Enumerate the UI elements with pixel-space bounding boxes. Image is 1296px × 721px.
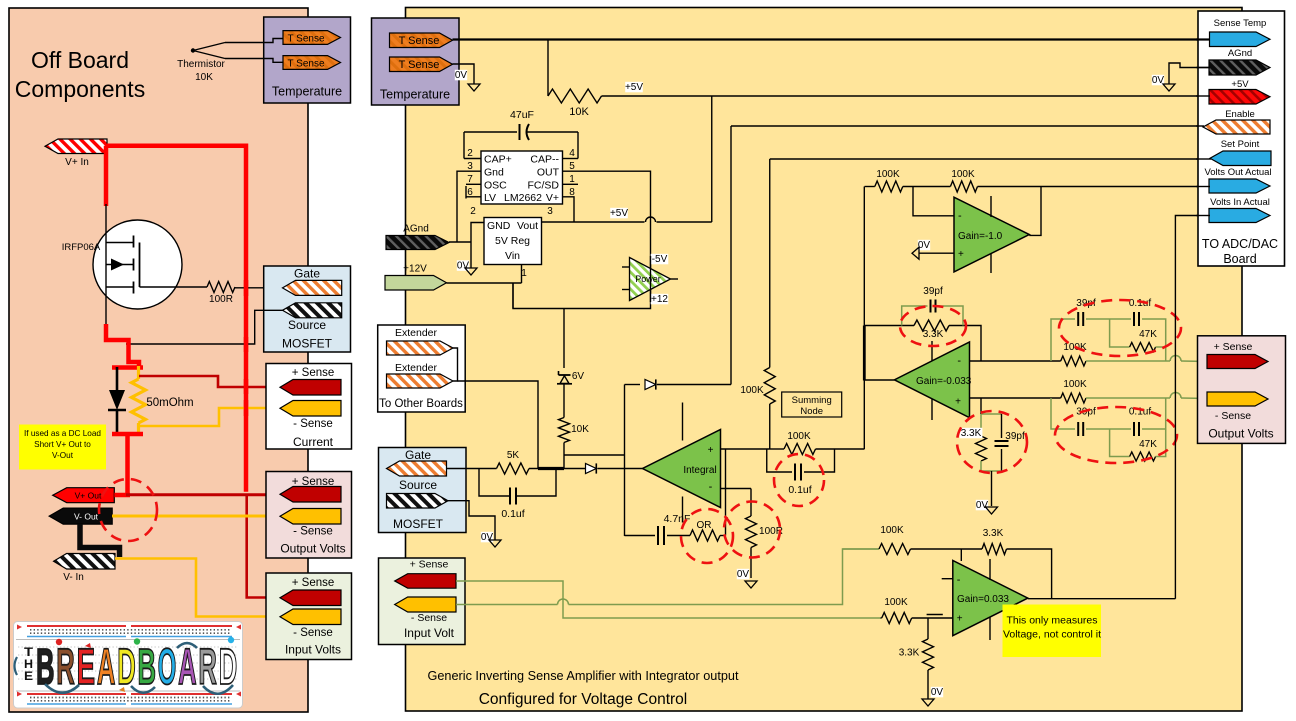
svg-text:Voltage, not control it: Voltage, not control it <box>1003 629 1101 641</box>
hop +5V over -5V wire <box>646 217 656 222</box>
wire plus to shunt RC <box>980 398 982 414</box>
svg-text:TO ADC/DAC: TO ADC/DAC <box>1202 237 1278 251</box>
svg-text:10K: 10K <box>571 424 589 435</box>
connector Extender 1 <box>387 341 454 355</box>
svg-text:V- In: V- In <box>63 572 84 583</box>
svg-text:0.1uf: 0.1uf <box>501 508 524 520</box>
connector + Sense (Input Volts left) <box>280 590 341 606</box>
wire 10K to node <box>563 443 565 469</box>
svg-text:0V: 0V <box>976 500 989 511</box>
ground 0V gain-1 +input <box>918 240 930 251</box>
svg-text:Volts Out Actual: Volts Out Actual <box>1204 167 1271 178</box>
wire gain-0.033 plus input <box>970 397 1061 399</box>
svg-text:- Sense: - Sense <box>293 418 333 430</box>
wire stub sense temp <box>1196 38 1210 40</box>
wire V+Out to Output Volts +Sense (dark red) <box>126 493 281 496</box>
transistor Q1 IRFP06A <box>93 220 182 309</box>
connector - Sense (Output right) <box>1207 392 1268 406</box>
svg-text:+ Sense: + Sense <box>1214 341 1253 353</box>
thermistor TH1 <box>193 43 225 59</box>
wire V+ pin8 <box>563 197 575 222</box>
wire 100K to -Sense (green) <box>1086 397 1170 399</box>
svg-text:-5V: -5V <box>652 254 668 265</box>
resistor R 5K <box>497 463 530 474</box>
svg-text:10K: 10K <box>195 72 213 83</box>
svg-text:100K: 100K <box>951 169 975 180</box>
wire -5V overlay through power triangle <box>650 256 652 302</box>
svg-text:T Sense: T Sense <box>399 35 440 47</box>
resistor R 0R <box>690 530 720 541</box>
wire input -sense (green) <box>456 604 558 606</box>
svg-text:3: 3 <box>467 161 473 172</box>
box Input Volt (right) <box>379 558 466 645</box>
svg-text:V+: V+ <box>546 192 559 204</box>
svg-text:39pf: 39pf <box>1076 407 1096 418</box>
op-amp U2 5V Reg <box>484 218 542 265</box>
ellipse around network2 <box>1055 407 1177 463</box>
svg-text:100K: 100K <box>1063 379 1087 390</box>
wire volts-in-actual vertical <box>1175 216 1209 599</box>
svg-text:OR: OR <box>697 520 712 531</box>
svg-text:47K: 47K <box>1139 329 1157 340</box>
svg-text:Enable: Enable <box>1225 109 1255 120</box>
wire 5K to node <box>529 468 564 470</box>
op-amp U6 Gain=0.033 <box>953 561 1028 636</box>
diode D1 (enable) <box>625 384 641 386</box>
wire source to 0V <box>448 501 495 540</box>
wire stub volts out <box>1196 186 1210 188</box>
svg-text:6V: 6V <box>572 371 585 382</box>
wire V-Out to V-In (thick black) <box>80 524 120 557</box>
wire gain0.033 minus stub <box>942 578 953 580</box>
connector Set Point <box>1210 151 1271 166</box>
wire +12V to Vin <box>447 282 522 284</box>
svg-text:4: 4 <box>569 148 575 159</box>
connector AGnd (left input) <box>386 236 449 250</box>
svg-text:FC/SD: FC/SD <box>528 180 560 192</box>
resistor R shunt 50mOhm <box>137 366 140 379</box>
connector - Sense (Current) <box>280 401 341 417</box>
svg-text:Components: Components <box>15 76 145 102</box>
svg-text:47uF: 47uF <box>510 109 534 121</box>
box TO ADC/DAC Board <box>1198 11 1285 266</box>
svg-text:T Sense: T Sense <box>399 59 440 71</box>
svg-text:47K: 47K <box>1139 439 1157 450</box>
svg-text:- Sense: - Sense <box>411 612 447 624</box>
connector Sense Temp <box>1210 32 1271 47</box>
ellipse around 3.3K fb <box>900 306 966 346</box>
resistor R 3.3K (fb) <box>865 325 915 327</box>
svg-text:V- Out: V- Out <box>74 512 99 522</box>
svg-text:100K: 100K <box>787 431 811 442</box>
svg-text:7: 7 <box>467 174 473 185</box>
svg-text:-: - <box>957 574 961 586</box>
ellipse around 0.1uf <box>774 454 824 506</box>
svg-text:-: - <box>957 355 961 367</box>
wire enable vertical <box>730 126 732 385</box>
op-amp U1 LM2662 <box>481 151 563 204</box>
svg-text:+12: +12 <box>651 294 668 305</box>
box MOSFET (right) <box>379 448 467 533</box>
svg-text:R: R <box>198 638 217 695</box>
capacitor C 0.1uf (summing) <box>767 449 792 472</box>
svg-text:Vout: Vout <box>517 220 538 232</box>
svg-text:2: 2 <box>467 148 473 159</box>
resistor R 100K (vin- ) <box>843 548 880 550</box>
svg-text:100K: 100K <box>884 597 908 608</box>
svg-text:+: + <box>708 445 714 456</box>
wire extender join <box>453 348 458 381</box>
wire gain-1 output feedback <box>1029 187 1041 236</box>
connector T Sense (right top) <box>390 33 453 48</box>
svg-text:+: + <box>955 397 961 408</box>
connector +12V <box>385 276 447 291</box>
wire +Sense Current (dark red) <box>139 376 281 387</box>
svg-text:MOSFET: MOSFET <box>393 517 444 531</box>
svg-text:CAP--: CAP-- <box>530 154 559 166</box>
connector V- Out <box>49 508 112 524</box>
svg-text:+ Sense: + Sense <box>292 577 335 589</box>
svg-text:+ Sense: + Sense <box>410 559 449 571</box>
wire node to integral diode <box>564 468 586 470</box>
svg-text:- Sense: - Sense <box>293 526 333 538</box>
svg-text:3.3K: 3.3K <box>983 528 1004 539</box>
connector T Sense (left bottom) <box>283 56 341 70</box>
svg-text:OSC: OSC <box>484 180 507 192</box>
svg-text:D: D <box>219 638 238 695</box>
wire setpoint 100K vertical <box>769 159 771 368</box>
svg-text:Gain=0.033: Gain=0.033 <box>957 594 1009 605</box>
wire GND pin2 to 0V <box>471 223 484 269</box>
svg-text:+5V: +5V <box>610 208 628 219</box>
wire thermistor to T Sense bottom <box>225 59 283 63</box>
svg-text:T Sense: T Sense <box>287 34 324 45</box>
diode D2 (integral) <box>586 463 597 473</box>
wire 100R to Gate connector <box>235 287 283 289</box>
pin stubs LM2662 <box>464 158 481 160</box>
op-amp U5 Gain=-0.033 <box>894 342 969 418</box>
box MOSFET (left) <box>264 266 351 352</box>
wire 100K to +Sense (green) <box>1086 360 1170 362</box>
wire gain-0.033 output to node <box>865 379 895 381</box>
panel: Off Board Components <box>9 8 308 712</box>
connector + Sense (Output Volts left) <box>280 487 341 503</box>
box Output Volts (left) <box>266 472 352 559</box>
connector Gate (right) <box>387 461 447 476</box>
svg-text:Thermistor: Thermistor <box>177 59 225 70</box>
op-amp U4 Gain=-1.0 <box>954 197 1029 272</box>
connector Source (right) <box>387 494 449 509</box>
wire shunt to 0V <box>991 471 993 506</box>
wire gain0.033 output <box>1028 598 1176 600</box>
wire rail to Input Volts +Sense (dark red) <box>247 495 281 598</box>
resistor 100R gate <box>207 282 235 293</box>
box Summing Node <box>782 392 842 417</box>
ellipse around shunt RC <box>957 411 1027 473</box>
wire V+ rail (thick red) <box>106 146 246 492</box>
svg-text:100K: 100K <box>740 385 764 396</box>
resistor R 100R (to gnd) <box>750 489 752 517</box>
svg-text:Node: Node <box>800 406 823 417</box>
box Current <box>266 364 352 450</box>
svg-text:100R: 100R <box>209 294 233 305</box>
node shunt top bar <box>112 365 143 370</box>
svg-text:Set Point: Set Point <box>1221 139 1260 150</box>
box Temperature (left) <box>264 17 351 103</box>
svg-text:A: A <box>97 638 116 695</box>
svg-text:If used as a DC Load: If used as a DC Load <box>24 429 101 438</box>
connector + Sense (Current) <box>280 380 341 396</box>
svg-text:T Sense: T Sense <box>287 59 324 70</box>
resistor R 10K pullup <box>548 89 602 103</box>
svg-text:10K: 10K <box>569 106 589 118</box>
wire gain-1 to Volts Out Actual <box>1041 186 1209 188</box>
capacitor C 0.1uf (gate) <box>479 469 510 497</box>
svg-text:Current: Current <box>293 435 334 449</box>
wire V-In to Input Volts -Sense (yellow) <box>115 559 281 617</box>
wire integral - to OR node <box>721 489 726 536</box>
resistor R 100K (to +sense out) <box>1061 356 1086 366</box>
connector Volts Out Actual <box>1209 179 1270 193</box>
box Input Volts (left) <box>266 573 352 660</box>
svg-text:Short V+ Out to: Short V+ Out to <box>34 440 91 449</box>
wire stub enable <box>1196 125 1204 127</box>
resistor R 100K (vin+) <box>881 617 882 619</box>
logo The Breadboard <box>14 622 243 709</box>
resistor R 10K (node) <box>559 418 570 443</box>
wire gain-1 minus input <box>913 187 954 216</box>
svg-text:3.3K: 3.3K <box>899 648 920 659</box>
svg-text:Off Board: Off Board <box>31 47 129 73</box>
svg-text:0V: 0V <box>457 261 470 272</box>
panel: main board (yellow) <box>406 8 1243 712</box>
svg-text:Gate: Gate <box>405 448 431 462</box>
wire source sense <box>126 310 283 344</box>
wire Vout +5V reg line <box>542 221 645 223</box>
node junction bar <box>538 467 564 470</box>
wire extender to gate node <box>458 381 539 469</box>
svg-text:Gnd: Gnd <box>484 167 504 179</box>
connector + Sense (Input Volt) <box>395 574 456 589</box>
power triangle <box>630 258 671 301</box>
connector V- In <box>54 554 115 570</box>
wire gate to 5K <box>447 468 497 470</box>
wire +5V drop to LM2662 <box>711 96 713 222</box>
svg-text:Input Volt: Input Volt <box>404 626 455 640</box>
svg-text:IRFP06A: IRFP06A <box>62 242 101 253</box>
svg-text:LV: LV <box>484 192 496 204</box>
svg-text:-: - <box>709 481 713 493</box>
wire -Sense Current (yellow) <box>139 408 281 426</box>
svg-text:0.1uf: 0.1uf <box>788 484 811 496</box>
svg-text:39pf: 39pf <box>1005 431 1025 442</box>
svg-text:-: - <box>958 210 962 222</box>
svg-text:Summing: Summing <box>792 395 832 406</box>
wire stub set point <box>1196 158 1211 160</box>
svg-text:100K: 100K <box>876 169 900 180</box>
wire +12 rail to zener <box>563 309 565 369</box>
wire AGnd to 0V <box>1169 63 1209 84</box>
svg-text:V+ In: V+ In <box>65 157 89 168</box>
wire tsense to 10K <box>547 40 549 97</box>
svg-text:3: 3 <box>547 206 553 217</box>
svg-text:Extender: Extender <box>395 362 438 374</box>
wire gain-0.033 minus input <box>970 360 1061 362</box>
svg-text:Extender: Extender <box>395 327 438 339</box>
wire node to 455 link <box>564 454 625 456</box>
node shunt bottom bar <box>112 432 143 437</box>
svg-text:Output Volts: Output Volts <box>1208 427 1273 441</box>
svg-text:5: 5 <box>569 161 575 172</box>
wire integral + input to summing <box>721 448 770 450</box>
wire enable horizontal <box>731 125 1211 127</box>
svg-text:MOSFET: MOSFET <box>282 337 333 351</box>
svg-text:0V: 0V <box>931 687 944 698</box>
svg-text:1: 1 <box>569 174 575 185</box>
svg-text:CAP+: CAP+ <box>484 154 512 166</box>
wire V-Out to Output Volts -Sense (yellow) <box>112 515 281 518</box>
connector Gate (left) <box>283 280 342 295</box>
capacitor C 39pf (fb) <box>902 306 928 326</box>
wire AGnd arrow to gnd net <box>449 241 471 243</box>
svg-text:+ Sense: + Sense <box>292 367 335 379</box>
svg-text:OUT: OUT <box>537 167 560 179</box>
svg-text:Source: Source <box>288 318 326 332</box>
svg-text:+5V: +5V <box>625 82 643 93</box>
svg-text:R: R <box>56 638 75 695</box>
connector V+ Out <box>53 488 115 503</box>
svg-text:Generic Inverting Sense Amplif: Generic Inverting Sense Amplifier with I… <box>427 669 738 683</box>
connector - Sense (Input Volt) <box>395 597 456 612</box>
svg-text:Input Volts: Input Volts <box>285 643 341 657</box>
svg-text:+: + <box>958 249 964 260</box>
svg-text:E: E <box>24 669 33 683</box>
wire V+ rail overlay (crossings) <box>244 280 249 296</box>
hop -sense over +sense <box>558 599 569 605</box>
connector +5V (to ADC) <box>1209 90 1270 105</box>
svg-text:GND: GND <box>487 220 511 232</box>
ground 0V (temp) <box>455 70 467 81</box>
box Output Volts (right) <box>1198 336 1286 444</box>
svg-text:Gain=-0.033: Gain=-0.033 <box>916 376 972 387</box>
svg-text:2: 2 <box>470 206 476 217</box>
connector - Sense (Input Volts left) <box>280 609 341 625</box>
op-amp U3 Integral <box>643 430 721 508</box>
ellipse around network1 <box>1059 300 1181 356</box>
wire stub +5v <box>1196 95 1210 97</box>
diode zener 6V <box>559 374 571 376</box>
wire source red staircase <box>106 324 139 368</box>
svg-text:AGnd: AGnd <box>403 224 429 235</box>
wire gate lead <box>140 286 208 288</box>
wire setpoint horizontal <box>770 158 1210 160</box>
svg-text:Temperature: Temperature <box>272 85 342 99</box>
svg-text:0V: 0V <box>455 70 468 81</box>
wire stub volts in <box>1196 215 1210 217</box>
connector Source (left) <box>283 303 342 318</box>
svg-text:100K: 100K <box>880 525 904 536</box>
connector Extender 2 <box>387 374 454 388</box>
svg-text:0V: 0V <box>918 240 931 251</box>
svg-text:V+ Out: V+ Out <box>75 491 102 501</box>
wire V+Out red stub <box>114 493 130 498</box>
svg-text:+12V: +12V <box>403 264 427 275</box>
svg-text:3.3K: 3.3K <box>961 428 982 439</box>
note: If used as a DC Load <box>19 425 106 470</box>
connector T Sense (left top) <box>283 31 341 45</box>
svg-text:AGnd: AGnd <box>1228 48 1252 59</box>
svg-text:3.3K: 3.3K <box>923 329 944 340</box>
svg-text:Configured for Voltage Control: Configured for Voltage Control <box>479 691 688 708</box>
wire stub agnd <box>1196 67 1210 69</box>
wire diode link vertical <box>624 385 626 537</box>
svg-text:Gain=-1.0: Gain=-1.0 <box>958 231 1003 242</box>
svg-text:Output Volts: Output Volts <box>280 542 345 556</box>
svg-text:0V: 0V <box>481 532 494 543</box>
svg-text:O: O <box>158 638 177 695</box>
network2 39pf/0.1uf/47K <box>1051 398 1075 429</box>
RC shunt 3.3K/39pf <box>980 414 982 431</box>
wire OUT pin5 -5V <box>513 171 651 308</box>
box Temperature (right) <box>372 18 460 105</box>
svg-text:To Other Boards: To Other Boards <box>379 398 463 410</box>
svg-text:+5V: +5V <box>1231 79 1249 90</box>
connector Enable <box>1203 120 1270 134</box>
note: this only measures voltage <box>1003 605 1102 658</box>
network1 39pf/0.1uf/47K <box>1051 319 1075 361</box>
resistor R 100K (to -sense out) <box>1061 393 1086 403</box>
wire shunt to V+ Out <box>125 434 130 495</box>
connector - Sense (Output Volts left) <box>280 509 341 525</box>
wire +5V net <box>602 95 1210 97</box>
wire T sense net (to Sense Temp) <box>453 38 1210 40</box>
resistor R 3.3K (to gnd) <box>927 618 929 639</box>
svg-text:39pf: 39pf <box>923 286 943 297</box>
wire T sense bottom to 0V <box>453 64 475 84</box>
svg-text:Source: Source <box>399 478 437 492</box>
svg-text:Volts In Actual: Volts In Actual <box>1210 197 1270 208</box>
wire -node to 100R <box>726 488 752 490</box>
connector AGnd (to ADC) <box>1209 60 1270 75</box>
ellipse around 0R <box>681 509 733 563</box>
wire volts-out wire node <box>864 186 866 188</box>
svg-text:Board: Board <box>1223 252 1256 266</box>
connector V+ In <box>45 139 107 154</box>
resistor R 100K (gain-1 fb) <box>950 181 977 192</box>
svg-text:- Sense: - Sense <box>293 627 333 639</box>
svg-text:B: B <box>138 638 157 695</box>
ellipse around 100R <box>724 502 780 558</box>
svg-text:Vin: Vin <box>505 250 520 262</box>
resistor R 100K (gain-1 in) <box>865 186 875 188</box>
svg-text:Gate: Gate <box>294 267 320 281</box>
svg-text:LM2662: LM2662 <box>504 192 542 204</box>
svg-text:Temperature: Temperature <box>380 88 450 102</box>
svg-text:B: B <box>36 638 55 695</box>
connector + Sense (Output right) <box>1207 355 1268 369</box>
svg-text:Sense Temp: Sense Temp <box>1214 18 1267 29</box>
svg-text:0V: 0V <box>737 569 750 580</box>
box To Other Boards <box>378 325 466 412</box>
resistor R 100K (set point) <box>764 368 775 405</box>
svg-text:5V Reg: 5V Reg <box>495 235 530 247</box>
svg-text:Power: Power <box>635 274 661 284</box>
wire zener to 10K <box>563 384 565 418</box>
resistor R 100K (summing) <box>769 448 784 450</box>
resistor R 3.3K (fb gain0.033) <box>982 544 1007 555</box>
svg-text:Integral: Integral <box>683 465 716 476</box>
wire thermistor to T Sense top <box>225 39 283 43</box>
